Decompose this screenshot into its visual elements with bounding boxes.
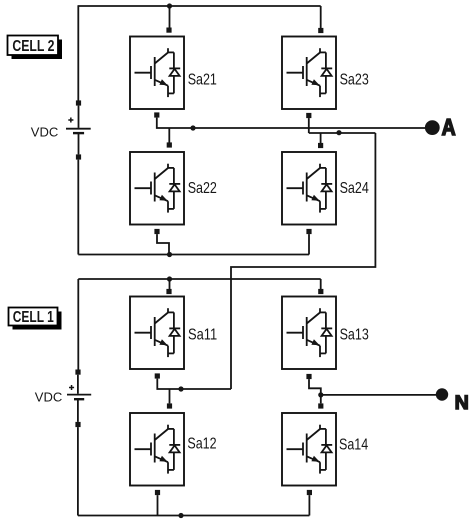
port square Sa21 C xyxy=(166,28,171,33)
svg-text:Sa14: Sa14 xyxy=(339,437,368,454)
port square battery2 - xyxy=(76,154,81,159)
wire phase A rail xyxy=(157,118,425,128)
port square Sa13 E xyxy=(306,374,311,379)
wire stub to Sa24 collector xyxy=(320,133,322,143)
node junction dot top rail cell 1 xyxy=(167,276,172,281)
wire bottom rail cell 2 xyxy=(78,254,309,256)
port square Sa24 E xyxy=(306,229,311,234)
svg-text:Sa11: Sa11 xyxy=(188,327,217,344)
wire Sa23 emitter down xyxy=(308,118,310,133)
wire left rail upper cell 2 xyxy=(77,6,79,101)
wire top rail cell 1 xyxy=(78,278,320,280)
port square Sa11 C xyxy=(166,289,171,294)
wire left rail lower cell 1 xyxy=(77,427,79,515)
wire corner down to Sa13 collector xyxy=(320,279,322,289)
IGBT Sa22 xyxy=(130,152,184,225)
wire top rail cell 2 xyxy=(78,5,321,7)
svg-text:Sa23: Sa23 xyxy=(340,72,369,89)
node junction dot bottom rail cell 2 xyxy=(167,252,172,257)
IGBT Sa24 xyxy=(282,152,336,225)
port square Sa22 E xyxy=(154,229,159,234)
port square Sa11 E xyxy=(155,373,160,378)
wire stub to Sa12 collector xyxy=(169,389,171,403)
port square Sa24 C xyxy=(318,143,323,148)
node junction dot N branch xyxy=(318,392,323,397)
svg-text:VDC: VDC xyxy=(31,125,59,139)
CELL 2 label shadow xyxy=(12,40,63,60)
port square Sa22 C xyxy=(167,142,172,147)
wire left rail lower cell 2 xyxy=(77,160,79,255)
wire Sa24 emitter to bottom rail xyxy=(308,234,310,254)
IGBT Sa14 xyxy=(282,413,336,486)
node junction dot right midpoint cell2 xyxy=(336,130,341,135)
svg-text:Sa12: Sa12 xyxy=(187,436,216,453)
port square Sa23 E xyxy=(306,113,311,118)
wire inter-cell link xyxy=(231,133,375,389)
CELL 1 label box xyxy=(9,308,58,326)
node junction dot cell1 midpoint xyxy=(178,386,183,391)
port square Sa23 C xyxy=(318,28,323,33)
wire stub to Sa11 collector xyxy=(169,279,171,289)
battery VDC cell 2 xyxy=(66,106,91,155)
IGBT Sa21 xyxy=(130,37,184,110)
svg-text:N: N xyxy=(455,392,469,414)
IGBT Sa12 xyxy=(130,413,184,486)
wire cell1 left midpoint rail xyxy=(157,379,231,389)
wire stub to Sa21 collector xyxy=(169,6,171,28)
port square Sa12 C xyxy=(167,403,172,408)
node junction dot top rail cell 2 xyxy=(167,3,172,8)
wire Sa14 emitter down xyxy=(308,495,310,515)
wire bottom rail cell 1 xyxy=(78,515,310,517)
port square battery2 + xyxy=(76,100,81,105)
port square battery1 + xyxy=(75,370,80,375)
wire left rail upper cell 1 xyxy=(77,279,79,370)
battery VDC cell 1 xyxy=(67,375,91,422)
wire stub to Sa22 collector xyxy=(168,128,170,143)
port square Sa13 C xyxy=(318,289,323,294)
wire Sa13 emitter to Sa14 collector xyxy=(309,379,321,403)
node junction dot on A rail xyxy=(190,125,195,130)
svg-text:Sa21: Sa21 xyxy=(188,72,217,89)
svg-text:Sa13: Sa13 xyxy=(340,327,369,344)
svg-text:Sa24: Sa24 xyxy=(340,180,369,197)
CELL 1 label shadow xyxy=(13,312,62,330)
CELL 2 label box xyxy=(8,36,59,56)
wire corner down to Sa23 collector xyxy=(320,6,322,28)
wire Sa12 emitter down xyxy=(157,495,159,515)
svg-text:Sa22: Sa22 xyxy=(188,180,217,197)
wire Sa22 emitter to bottom rail xyxy=(157,234,169,254)
wire to terminal N xyxy=(321,394,436,396)
wire cell2 right midpoint horizontal xyxy=(309,132,376,134)
IGBT Sa23 xyxy=(282,37,336,110)
svg-text:CELL 2: CELL 2 xyxy=(12,38,54,55)
terminal N circle xyxy=(436,388,448,400)
IGBT Sa11 xyxy=(130,297,184,370)
port square Sa14 C xyxy=(318,403,323,408)
terminal A circle xyxy=(425,120,440,135)
svg-text:A: A xyxy=(442,114,456,140)
node junction dot bottom rail cell 1 xyxy=(178,513,183,518)
port square battery1 - xyxy=(75,422,80,427)
port square Sa12 E xyxy=(155,490,160,495)
svg-text:VDC: VDC xyxy=(35,391,63,405)
port square Sa14 E xyxy=(307,490,312,495)
svg-text:CELL 1: CELL 1 xyxy=(13,309,54,326)
IGBT Sa13 xyxy=(282,297,336,370)
port square Sa21 E xyxy=(154,112,159,117)
